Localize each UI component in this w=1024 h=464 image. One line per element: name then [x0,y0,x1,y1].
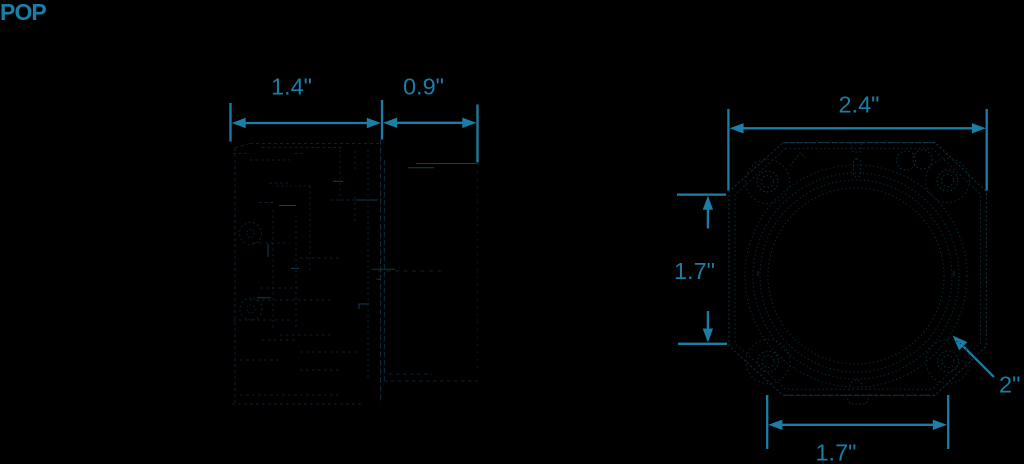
bottom-center arc detail [850,380,862,386]
arrowhead 2.4 right [972,123,986,133]
flange bottom edge emphasis [783,394,935,396]
top-left hook detail [790,153,806,166]
arrowhead leader 2" [953,336,968,351]
bright internal bits [257,181,378,297]
arrowhead 0.9 right [462,118,476,128]
svg-text:1.4": 1.4" [271,73,312,99]
left tick mark [757,271,759,276]
flange outline octagon inner [735,149,981,390]
vertical dimension line upper segment [707,208,709,229]
extension line right (2.4 dim) [986,109,988,191]
screw circle lower [240,298,262,320]
internal verticals [273,150,368,380]
concentric circle r88 [768,188,944,364]
body outline [232,144,379,405]
small circle pair top-right [897,151,916,170]
flange top edge emphasis [783,142,935,144]
right tick mark [953,271,955,276]
top-center slot [854,159,861,177]
internal shelf lines [259,183,377,203]
arrowhead 1.7 vertical up [703,196,713,210]
arrowhead 1.4 left [232,118,246,128]
extension line middle [381,100,383,140]
concentric circle r103 [753,173,959,379]
bottom-center tab [846,395,870,404]
boss circle bottom-left [746,340,790,384]
centerline cross at flange [372,269,395,279]
arrowhead 2.4 left [730,123,744,133]
dotted centerline row [277,185,311,187]
svg-text:0.9": 0.9" [403,74,444,100]
svg-text:2": 2" [999,372,1020,398]
dimension line 2.4" [741,127,974,129]
flange vertical line outer [380,139,382,403]
vertical dimension line lower segment [707,311,709,330]
bolt hole bottom-right [938,351,959,372]
boss circle bottom-right [926,340,970,384]
body top internal lines [233,148,344,161]
extension line right (0.9 dim) [476,105,478,163]
barrel right edge [477,164,479,374]
bolt hole top-right [937,170,958,191]
dimension line 1.7" bottom [780,424,936,426]
barrel bottom lines [384,374,478,381]
top-center tab [851,143,862,152]
arrowhead 1.7 vertical down [703,329,713,343]
svg-text:1.7": 1.7" [815,440,856,464]
extension line left (1.4 dim) [229,103,231,142]
boss circle top-right [926,159,970,203]
internal horizontal rows [233,243,360,395]
extension line left (1.7 bottom dim) [766,395,768,449]
svg-text:POP: POP [0,0,46,25]
dimension line 0.9" [395,122,465,124]
extension line bottom (1.7 vertical dim) [678,343,727,345]
bolt hole top-left [757,171,778,192]
flange vertical line inner [383,160,385,381]
extension line left (2.4 dim) [727,109,729,191]
arrowhead 1.4 right [367,118,381,128]
screw circle upper [240,223,262,245]
svg-text:2.4": 2.4" [838,92,879,118]
extension line right (1.7 bottom dim) [947,395,949,449]
leader line 2" [957,340,994,377]
barrel top edge [408,164,478,168]
svg-text:1.7": 1.7" [674,258,715,284]
bolt hole bottom-left [758,351,779,372]
barrel centerline [378,270,446,272]
dimension line 1.4" [243,122,369,124]
L bracket detail [359,304,369,309]
arrowhead 0.9 left [383,118,397,128]
extension line top (1.7 vertical dim) [677,193,726,195]
arrowhead 1.7 bottom left [768,420,782,430]
arrowhead 1.7 bottom right [933,420,947,430]
concentric circle r96 [760,180,952,372]
boss circle top-left [746,160,790,204]
concentric circle r111 [745,165,967,387]
flange outline octagon outer [729,143,986,396]
